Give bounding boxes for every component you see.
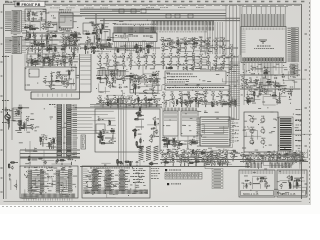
wire <box>102 78 107 80</box>
transistor Q260 <box>300 153 304 158</box>
IC U15 <box>95 109 160 152</box>
transistor Q89 <box>48 60 51 64</box>
transistor Q212 <box>149 134 153 139</box>
transistor Q96 <box>65 81 69 86</box>
wire <box>72 108 123 134</box>
wire <box>290 92 292 96</box>
wire <box>100 136 102 143</box>
transistor Q29 <box>64 37 67 41</box>
wire <box>133 105 135 107</box>
transistor Q75 <box>264 69 267 73</box>
node pin numbers <box>242 28 284 31</box>
transistor Q277 <box>55 158 58 162</box>
capacitor C53 <box>137 86 140 88</box>
wire <box>68 60 71 62</box>
wire <box>105 137 111 139</box>
wire <box>111 55 114 57</box>
wire <box>78 37 82 39</box>
wire <box>19 129 21 132</box>
wire <box>210 160 215 162</box>
IC U24 <box>82 166 150 198</box>
wire <box>182 63 185 65</box>
wire <box>165 105 167 107</box>
transistor Q80 <box>47 57 51 62</box>
transistor Q57 <box>206 45 210 50</box>
wire <box>264 180 266 182</box>
wire <box>176 42 181 44</box>
capacitor C46 <box>59 73 61 76</box>
capacitor C26 <box>172 42 175 44</box>
wire <box>193 142 198 144</box>
wire <box>57 64 59 66</box>
resistor R63 <box>235 100 236 105</box>
connector CN403 <box>270 163 291 169</box>
wire <box>96 37 98 44</box>
wire <box>193 68 195 70</box>
capacitor C65 <box>216 103 218 106</box>
wire <box>103 18 105 29</box>
wire <box>11 179 17 190</box>
wire <box>100 20 240 22</box>
wire <box>210 47 215 49</box>
wire <box>301 158 303 160</box>
wire <box>111 103 114 105</box>
wire <box>210 101 213 103</box>
wire <box>190 156 195 158</box>
transistor Q86 <box>26 60 29 64</box>
transistor Q93 <box>48 84 51 88</box>
wire <box>158 122 159 124</box>
wire <box>90 104 162 106</box>
wire <box>219 63 222 65</box>
wire <box>63 104 65 158</box>
wire <box>48 81 54 83</box>
wire <box>243 176 266 189</box>
transistor Q254 <box>256 154 260 159</box>
transistor Q249 <box>260 128 265 134</box>
wire <box>4 201 302 203</box>
transistor Q9 <box>47 23 50 27</box>
wire <box>282 79 284 81</box>
wire <box>265 76 267 79</box>
node value labels <box>8 13 23 41</box>
wire <box>29 141 31 166</box>
transistor Q242 <box>205 154 208 158</box>
wire <box>247 81 294 100</box>
capacitor C23 <box>167 42 170 44</box>
wire <box>31 64 33 67</box>
wire <box>108 46 112 48</box>
transistor Q50 <box>221 39 224 43</box>
wire <box>161 156 163 158</box>
transistor Q66 <box>273 84 277 89</box>
resistor R119 <box>290 184 291 189</box>
transistor Q108 <box>98 62 102 67</box>
wire <box>117 78 122 80</box>
wire <box>30 63 32 66</box>
wire <box>203 56 208 58</box>
transistor Q201 <box>51 140 55 145</box>
wire <box>180 47 185 49</box>
transistor Q87 <box>33 60 36 64</box>
transistor Q137 <box>113 96 117 101</box>
wire <box>262 149 308 159</box>
wire <box>301 162 303 164</box>
wire <box>50 48 57 50</box>
connector CN202 <box>152 27 214 31</box>
node value labels <box>89 168 140 193</box>
transistor Q45 <box>183 39 186 43</box>
transistor Q114 <box>144 63 148 68</box>
resistor R36 <box>247 99 248 104</box>
wire <box>35 27 40 29</box>
capacitor C1 <box>40 12 42 15</box>
transistor Q270 <box>294 153 297 157</box>
wire <box>162 156 165 158</box>
wire <box>22 173 53 198</box>
wire <box>78 33 81 35</box>
wire <box>286 90 292 92</box>
transistor Q23 <box>74 43 77 47</box>
wire <box>52 145 54 149</box>
transistor Q287 <box>210 160 213 164</box>
transistor Q215 <box>171 142 175 147</box>
wire <box>221 105 223 107</box>
wire <box>34 38 36 40</box>
wire <box>75 34 78 36</box>
capacitor C58 <box>134 99 136 102</box>
wire <box>200 160 203 162</box>
resistor R88 <box>140 138 141 143</box>
wire <box>147 125 159 135</box>
transistor Q179 <box>170 93 174 98</box>
wire <box>160 159 250 161</box>
wire <box>37 48 41 50</box>
capacitor C38 <box>273 84 276 86</box>
wire <box>264 183 266 187</box>
transistor Q34 <box>84 43 88 48</box>
node value labels <box>241 70 301 103</box>
capacitor C49 <box>62 83 65 85</box>
connector CN101 <box>12 11 22 33</box>
wire <box>49 64 51 66</box>
wire <box>68 75 70 78</box>
transistor Q91 <box>63 60 66 64</box>
resistor R57 <box>138 97 139 102</box>
capacitor C68 <box>231 99 233 102</box>
wire <box>51 79 53 86</box>
transistor Q103 <box>121 55 125 60</box>
capacitor C43 <box>60 61 62 64</box>
wire <box>114 50 152 56</box>
wire <box>76 36 81 38</box>
wire <box>80 166 250 168</box>
resistor R99 <box>169 140 170 145</box>
wire <box>197 155 199 157</box>
wire <box>37 61 42 63</box>
transistor Q152 <box>108 100 112 105</box>
wire <box>249 158 251 160</box>
wire <box>197 40 199 42</box>
node value labels <box>163 111 238 157</box>
wire <box>253 162 255 164</box>
wire <box>217 93 220 95</box>
transistor Q3 <box>27 17 30 21</box>
svg-text:FRONT P.B: FRONT P.B <box>22 3 41 7</box>
wire <box>72 46 81 53</box>
transistor Q61 <box>175 41 179 46</box>
wire <box>49 138 51 140</box>
wire <box>145 101 147 103</box>
wire <box>167 144 169 148</box>
wire <box>95 31 97 39</box>
wire <box>188 64 193 66</box>
transistor Q129 <box>104 76 107 80</box>
capacitor C81 <box>201 150 203 153</box>
wire <box>138 102 140 106</box>
transistor Q13 <box>47 34 50 38</box>
wire <box>301 4 303 199</box>
capacitor C8 <box>49 47 52 49</box>
capacitor C33 <box>290 89 293 91</box>
wire <box>91 51 93 53</box>
connector CN302 <box>243 58 284 61</box>
transistor Q99 <box>7 118 10 122</box>
capacitor C98 <box>294 180 297 182</box>
wire <box>180 42 187 44</box>
wire <box>187 136 189 150</box>
wire <box>45 45 49 47</box>
transistor Q268 <box>298 158 301 162</box>
wire <box>75 40 77 42</box>
wire <box>64 104 66 158</box>
resistor R51 <box>8 119 9 124</box>
capacitor C82 <box>233 150 236 152</box>
transistor Q127 <box>155 72 158 76</box>
resistor R97 <box>178 144 183 145</box>
transistor Q36 <box>87 38 91 43</box>
wire <box>211 164 213 166</box>
resistor R74 <box>20 120 21 125</box>
wire <box>57 48 59 50</box>
wire <box>139 118 144 120</box>
transistor Q186 <box>227 93 231 98</box>
wire <box>219 155 221 157</box>
resistor R90 <box>155 121 156 126</box>
wire <box>20 149 80 151</box>
transistor Q98 <box>17 123 20 127</box>
transistor Q115 <box>152 62 156 67</box>
wire <box>46 41 65 49</box>
transistor Q25 <box>76 47 79 51</box>
wire <box>20 157 80 159</box>
capacitor C66 <box>198 100 201 102</box>
wire <box>226 47 231 49</box>
wire <box>43 71 73 89</box>
wire <box>289 158 292 160</box>
wire <box>22 32 80 34</box>
node value labels <box>246 154 280 161</box>
transistor Q241 <box>208 154 211 158</box>
transistor Q264 <box>268 158 271 162</box>
wire <box>181 103 183 107</box>
transistor Q37 <box>145 44 149 49</box>
wire <box>162 43 164 45</box>
wire <box>210 160 212 162</box>
wire <box>153 131 155 136</box>
transistor Q289 <box>225 160 228 164</box>
wire <box>240 154 300 156</box>
transistor Q112 <box>128 63 132 68</box>
wire <box>106 46 112 48</box>
wire <box>119 55 122 57</box>
transistor Q38 <box>123 44 126 48</box>
transistor Q227 <box>210 151 214 156</box>
wire <box>33 39 35 41</box>
wire <box>199 156 213 169</box>
transistor Q236 <box>201 156 204 160</box>
transistor Q76 <box>62 58 66 63</box>
wire <box>106 142 114 144</box>
node value labels <box>100 56 155 69</box>
transistor Q69 <box>244 80 247 85</box>
wire <box>182 161 187 163</box>
wire <box>296 158 299 160</box>
wire <box>202 100 208 102</box>
transistor Q192 <box>172 101 175 105</box>
wire <box>143 102 148 104</box>
wire <box>185 50 187 52</box>
transistor Q187 <box>184 101 188 106</box>
wire <box>60 159 66 161</box>
transistor Q257 <box>278 154 282 159</box>
wire <box>194 59 210 71</box>
wire <box>130 68 132 70</box>
resistor R114 <box>189 162 194 163</box>
wire <box>114 60 116 62</box>
transistor Q174 <box>229 63 233 68</box>
wire <box>112 9 226 11</box>
wire <box>51 64 53 67</box>
capacitor C50 <box>5 110 8 112</box>
wire <box>236 152 240 154</box>
transistor Q196 <box>204 101 207 105</box>
wire <box>138 81 140 83</box>
wire <box>234 64 239 66</box>
wire <box>168 143 176 145</box>
wire <box>292 162 294 164</box>
wire <box>146 99 161 108</box>
wire <box>68 42 70 44</box>
wire <box>180 154 185 156</box>
IC U17 <box>163 111 178 136</box>
wire <box>189 39 192 41</box>
wire <box>173 47 178 49</box>
wire <box>123 67 125 69</box>
wire <box>212 63 215 65</box>
wire <box>115 42 156 54</box>
wire <box>184 155 187 157</box>
transistor Q141 <box>144 97 148 102</box>
transistor Q138 <box>121 97 125 102</box>
capacitor C95 <box>264 179 266 182</box>
wire <box>96 55 99 57</box>
wire <box>41 51 43 53</box>
capacitor C4 <box>47 41 49 44</box>
node pin labels <box>291 28 299 62</box>
wire <box>73 58 75 60</box>
wire <box>187 164 189 166</box>
wire <box>243 63 282 76</box>
wire <box>172 40 194 46</box>
resistor R9 <box>40 43 45 44</box>
transistor Q18 <box>61 36 64 40</box>
wire <box>120 103 125 105</box>
wire <box>289 96 291 98</box>
transistor Q46 <box>191 39 194 43</box>
wire <box>207 50 209 52</box>
wire <box>99 101 101 103</box>
wire <box>106 59 108 61</box>
capacitor C83 <box>293 160 296 162</box>
capacitor C22 <box>163 39 166 41</box>
wire <box>27 64 29 66</box>
wire <box>33 178 69 197</box>
wire <box>215 51 217 53</box>
wire <box>51 146 53 149</box>
transistor Q135 <box>98 97 102 102</box>
wire <box>64 65 66 67</box>
capacitor C88 <box>9 174 11 177</box>
wire <box>242 158 244 160</box>
wire <box>195 155 197 158</box>
connector CN206 <box>84 190 148 195</box>
wire <box>67 83 74 85</box>
resistor R55 <box>129 75 134 76</box>
wire <box>141 146 144 148</box>
wire <box>80 13 226 15</box>
wire <box>8 124 10 129</box>
wire <box>90 54 92 92</box>
wire <box>198 161 203 163</box>
transistor Q235 <box>194 155 197 159</box>
wire <box>212 97 214 99</box>
transistor Q199 <box>228 101 231 105</box>
wire <box>188 43 194 45</box>
transistor Q81 <box>37 55 41 60</box>
wire <box>184 56 237 82</box>
node value labels <box>27 55 80 89</box>
resistor R37 <box>254 92 255 97</box>
wire <box>121 100 123 102</box>
connector CN205 <box>163 108 197 112</box>
wire <box>114 68 116 70</box>
wire <box>138 67 140 69</box>
resistor R107 <box>10 162 15 163</box>
wire <box>40 142 42 145</box>
resistor R44 <box>61 56 66 57</box>
wire <box>294 159 299 161</box>
transistor Q185 <box>219 93 223 98</box>
wire <box>25 25 59 52</box>
wire <box>102 105 104 107</box>
wire <box>87 51 89 53</box>
wire <box>198 119 233 156</box>
transistor Q54 <box>183 46 187 51</box>
wire <box>8 120 10 127</box>
wire <box>27 38 29 40</box>
wire <box>138 129 140 131</box>
